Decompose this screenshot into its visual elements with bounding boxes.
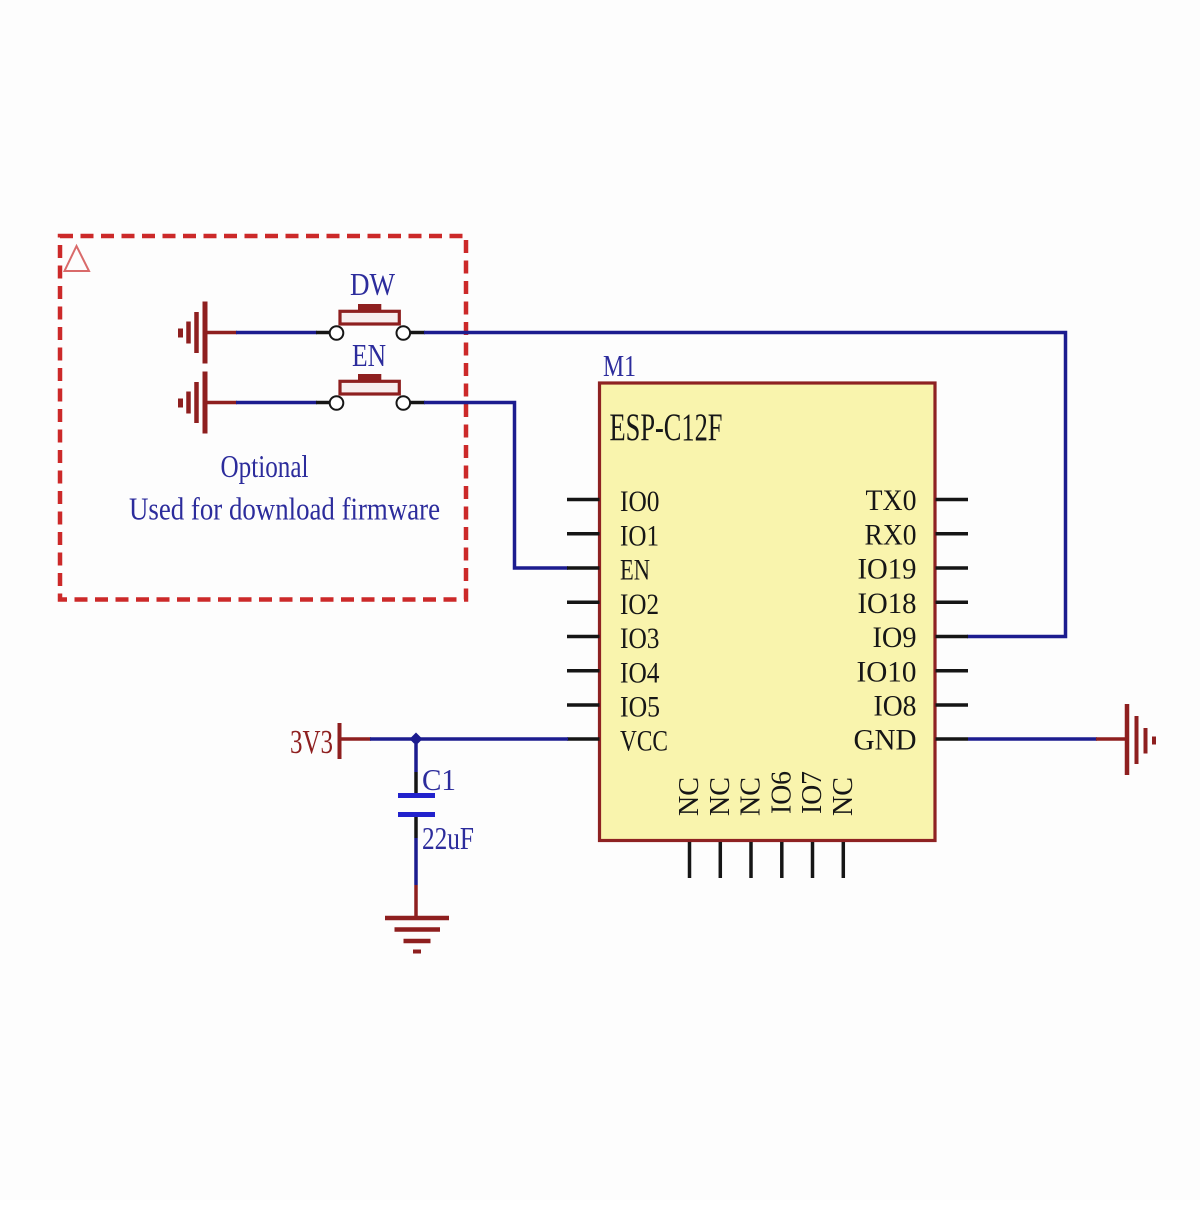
optional region dashed box	[60, 236, 466, 600]
svg-text:VCC: VCC	[620, 725, 668, 758]
svg-text:IO6: IO6	[765, 771, 797, 814]
left pin stubs	[567, 500, 600, 740]
svg-text:EN: EN	[620, 554, 650, 587]
marker triangle	[65, 246, 90, 271]
switch EN	[330, 374, 410, 410]
svg-text:GND: GND	[854, 724, 917, 757]
svg-text:NC: NC	[735, 777, 767, 816]
capacitor C1	[398, 744, 435, 917]
IC M1 body	[600, 383, 936, 841]
switch DW	[330, 304, 410, 340]
wire ground to DW left	[236, 331, 317, 335]
right pin labels	[854, 484, 917, 757]
svg-text:IO18: IO18	[858, 587, 917, 620]
svg-text:22uF: 22uF	[422, 820, 474, 856]
svg-text:IO0: IO0	[620, 485, 660, 518]
svg-text:NC: NC	[827, 777, 859, 816]
wire ground to EN left	[236, 401, 317, 405]
svg-text:Used for download firmware: Used for download firmware	[129, 491, 440, 527]
switch DW pins	[316, 331, 330, 335]
switch EN pins	[316, 401, 330, 405]
svg-text:C1: C1	[422, 762, 456, 797]
left pin labels	[620, 485, 668, 758]
ground GND3 (C1)	[385, 918, 449, 952]
svg-text:IO2: IO2	[620, 588, 659, 621]
wire 3V3 to VCC	[370, 737, 568, 741]
svg-text:IO19: IO19	[858, 553, 917, 586]
svg-text:Optional: Optional	[221, 448, 309, 484]
svg-text:NC: NC	[673, 777, 705, 816]
right pin stubs	[936, 500, 969, 740]
bottom pin labels (rotated)	[673, 771, 859, 816]
svg-text:M1: M1	[603, 348, 636, 383]
junction	[410, 733, 423, 746]
svg-text:IO10: IO10	[857, 655, 917, 688]
power port 3V3	[340, 723, 372, 759]
svg-text:IO8: IO8	[874, 690, 917, 723]
svg-text:IO9: IO9	[873, 621, 917, 654]
svg-text:ESP-C12F: ESP-C12F	[610, 406, 723, 449]
ground GND2 (EN switch)	[181, 372, 238, 434]
svg-text:IO7: IO7	[796, 771, 828, 814]
svg-text:DW: DW	[350, 266, 396, 302]
wire DW to IO9	[424, 333, 1066, 637]
svg-text:3V3: 3V3	[290, 724, 333, 761]
svg-text:IO1: IO1	[620, 519, 659, 552]
wire GND pin to ground	[968, 737, 1097, 741]
svg-text:NC: NC	[704, 777, 736, 816]
svg-text:IO4: IO4	[620, 656, 660, 689]
ground GND1 (DW switch)	[181, 302, 238, 364]
bottom pin stubs	[690, 842, 844, 878]
svg-text:TX0: TX0	[866, 484, 917, 517]
svg-text:IO3: IO3	[620, 622, 660, 655]
svg-text:IO5: IO5	[620, 691, 660, 724]
svg-text:EN: EN	[352, 337, 386, 373]
ground GND4 (right)	[1127, 704, 1154, 775]
svg-text:RX0: RX0	[865, 518, 917, 551]
wire EN switch to EN pin	[424, 403, 568, 569]
